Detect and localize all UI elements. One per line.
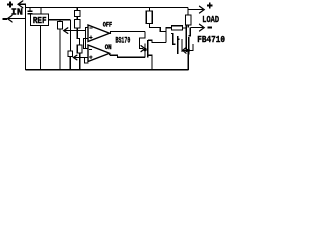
wire R1b bottom to R6: [77, 28, 79, 45]
label op-amp OFF plus: [89, 36, 93, 38]
wire bottom rail: [26, 69, 189, 71]
potentiometer P1 body: [58, 22, 63, 30]
wire BS170 gate feed: [140, 31, 146, 48]
wire REF top pin: [40, 8, 42, 14]
wire resistor R2 branch vertical: [70, 20, 72, 51]
resistor R1a: [74, 10, 80, 16]
node IN+ arrow: [19, 3, 26, 5]
arrowhead IN-: [7, 15, 12, 22]
wire R2 to rail: [69, 57, 71, 71]
op-amp U2 OFF triangle: [88, 25, 110, 42]
svg-text:FB4710: FB4710: [197, 35, 225, 45]
transistor Q2 drain lead: [189, 28, 191, 36]
label - input (drawn): [3, 18, 7, 20]
wire Q2 gate jog: [171, 34, 176, 45]
junction dot BS170 gate: [143, 48, 146, 51]
arrowhead wiper P1: [64, 28, 68, 34]
REF box U1: [31, 14, 49, 26]
wire R3 bottom node: [149, 23, 166, 31]
wire ref vertical V2: [84, 39, 89, 49]
resistor R1b: [74, 20, 80, 28]
node OUT+ arrow wire: [188, 9, 203, 11]
load resistor R5: [186, 15, 192, 25]
arrowhead BS170 gate: [141, 46, 145, 52]
svg-text:IN: IN: [11, 7, 23, 18]
wire ON amp power L: [84, 58, 88, 64]
wire input vertical: [25, 4, 27, 70]
wire OFF output: [108, 31, 145, 33]
wire load bottom stub: [187, 25, 189, 28]
svg-text:ON: ON: [105, 44, 112, 52]
resistor R3 pullup: [146, 11, 152, 23]
resistor R1a top stub: [76, 8, 78, 11]
transistor Q2 aux bar mid: [181, 39, 183, 52]
transistor Q2 source lead: [183, 44, 193, 50]
wire REF bottom to rail: [40, 25, 42, 70]
arrowhead OUT-: [200, 24, 205, 31]
capacitor C1 plates: [27, 10, 32, 12]
transistor Q1 drain hook: [148, 40, 166, 42]
arrowhead OUT+: [200, 6, 205, 13]
label op-amp OFF minus: [90, 27, 93, 29]
transistor Q1 BS170 gate bar: [144, 44, 146, 58]
node IN- arrow: [8, 18, 26, 20]
wire Q2 source to rail: [187, 50, 189, 70]
potentiometer R2 wiper wire to ON amp: [74, 57, 88, 59]
wire sense vertical V1: [86, 28, 89, 49]
arrowhead FB4710 source: [183, 48, 186, 54]
wire REF output: [49, 19, 71, 21]
resistor R3 pullup top stub: [148, 8, 150, 12]
label + input (drawn): [7, 4, 13, 6]
wire rail corner to load: [187, 8, 189, 16]
svg-text:REF: REF: [33, 16, 47, 26]
transistor Q2 channel bar: [188, 37, 190, 55]
potentiometer R2: [68, 51, 73, 57]
resistor R4 gate (horizontal): [172, 26, 183, 30]
wire R6 bottom to rail: [79, 53, 81, 70]
potentiometer wiper wire: [64, 30, 86, 32]
svg-text:LOAD: LOAD: [202, 14, 219, 25]
junction dot FB4710 source: [187, 49, 190, 52]
wire R1a-R1b stub: [76, 16, 78, 19]
transistor Q2 aux bar left: [177, 36, 179, 54]
transistor Q1 source lead: [148, 55, 152, 70]
svg-text:BS170: BS170: [116, 37, 131, 46]
wire R4 output lead: [183, 27, 187, 29]
wire ON output: [109, 54, 145, 57]
potentiometer P1 bottom stub: [59, 29, 61, 70]
label + output (drawn): [207, 5, 213, 7]
arrowhead wiper R2: [73, 55, 77, 60]
wire node riser to gate resistor: [166, 28, 172, 43]
label op-amp ON minus: [89, 49, 92, 51]
label - output (drawn): [208, 26, 212, 28]
svg-text:OFF: OFF: [103, 22, 112, 30]
label op-amp ON plus: [89, 56, 93, 58]
wire top rail: [26, 7, 189, 9]
transistor Q2 FB4710 gate bar: [185, 25, 187, 53]
arrowhead IN+: [18, 1, 23, 8]
transistor Q1 channel bar: [147, 40, 149, 58]
op-amp U3 ON triangle: [88, 45, 110, 62]
resistor R6: [77, 45, 82, 53]
capacitor C1 stub: [29, 8, 31, 11]
potentiometer P1 top stub: [59, 20, 61, 22]
node OUT- arrow wire: [190, 27, 203, 29]
